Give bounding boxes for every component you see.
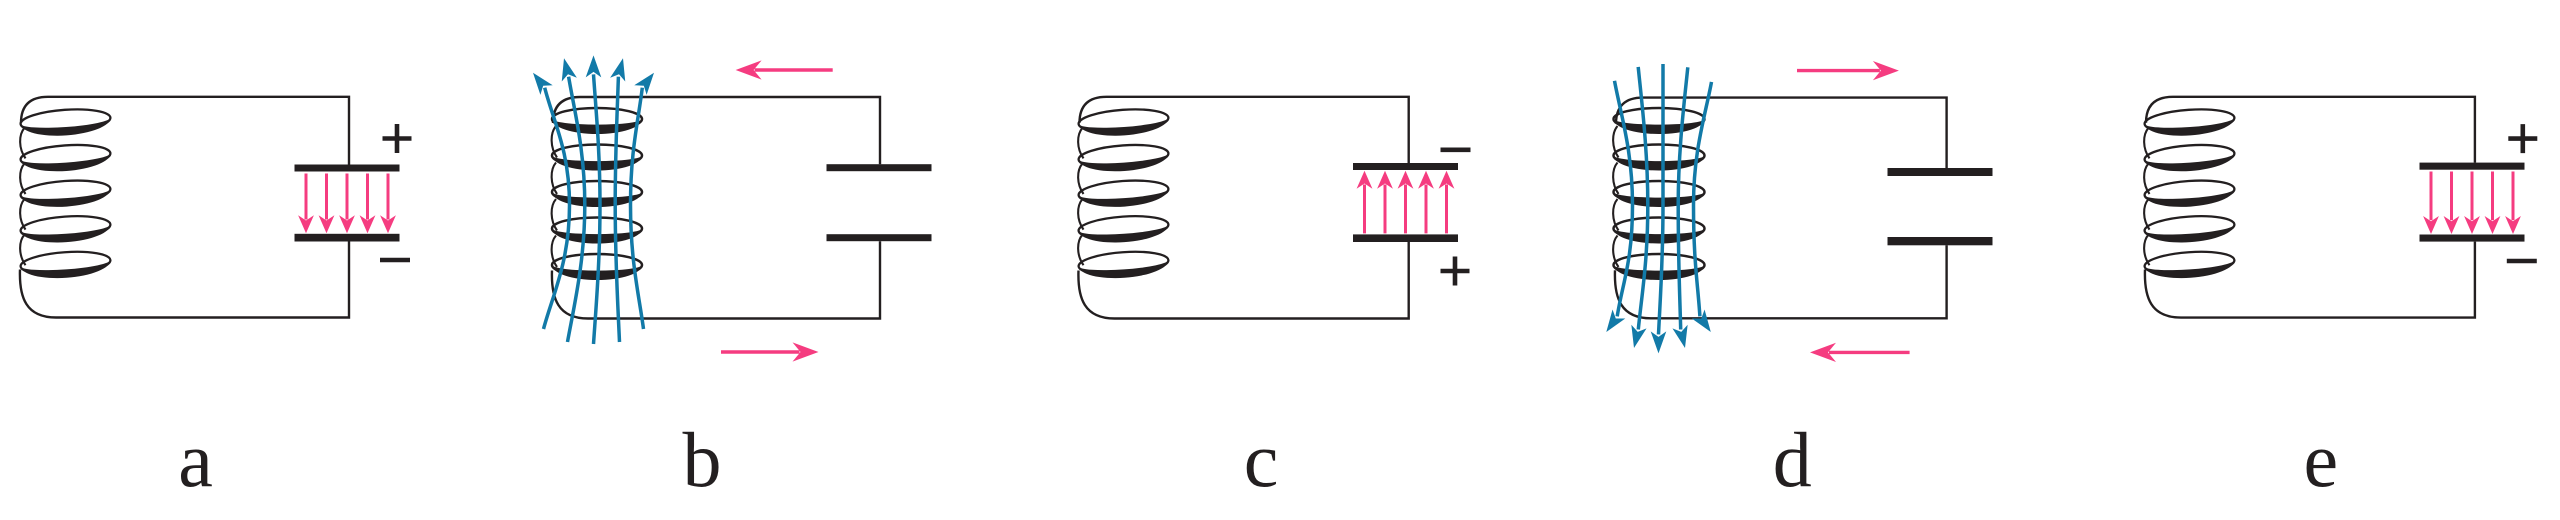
magnetic flux lines B through coil (panel b) [527,55,660,344]
inductor coil L, 5 turns (panel e) [2144,107,2236,281]
plus sign top plate (panel e) [2508,124,2537,153]
inductor coil L, 5 turns (panel b) [552,108,642,280]
svg-text:a: a [178,416,213,503]
svg-text:c: c [1244,416,1279,503]
inductor coil L, 5 turns (panel a) [20,107,112,281]
wire: top run and right drop to capacitor (panel a) [21,97,349,165]
current arrow top, pointing left (panel b) [755,68,833,71]
inductor coil L, 5 turns (panel c) [1078,107,1170,281]
minus sign bottom plate (panel a) [380,258,410,263]
capacitor C top plate (panel e) [2420,163,2525,170]
inductor coil L, 5 turns (panel d) [1613,108,1704,280]
capacitor C bottom plate (panel c) [1353,234,1458,242]
current arrow top, pointing right (panel d) [1797,69,1880,72]
capacitor C top plate (panel c) [1353,163,1458,170]
magnetic flux lines B through coil (panel d) [1600,64,1717,353]
E-field arrows between plates (panel e) [2423,172,2521,235]
capacitor C top plate (panel b) [827,164,932,171]
capacitor C bottom plate (panel e) [2420,235,2525,242]
svg-text:d: d [1773,416,1812,503]
plus sign top plate (panel a) [383,124,412,153]
capacitor C bottom plate (panel a) [295,234,400,242]
current arrow bottom, pointing right (panel b) [721,350,800,353]
wire: bottom run back to coil (panel d) [1615,245,1947,318]
minus sign top plate (panel c) [1441,148,1471,153]
capacitor C top plate (panel a) [295,165,400,172]
wire: top run and right drop to capacitor (panel b) [553,97,880,164]
capacitor C bottom plate (panel b) [827,234,932,241]
wire: top run and right drop to capacitor (panel c) [1080,97,1409,163]
plus sign bottom plate (panel c) [1441,257,1470,286]
wire: bottom run back to coil (panel a) [20,242,349,318]
current arrow bottom, pointing left (panel d) [1829,351,1910,354]
svg-text:e: e [2303,416,2338,503]
svg-text:b: b [683,416,722,503]
wire: bottom run back to coil (panel b) [552,241,880,318]
wire: top run and right drop to capacitor (panel e) [2146,97,2475,163]
wire: bottom run back to coil (panel c) [1078,242,1408,319]
E-field arrows between plates (panel c) [1357,171,1455,234]
wire: bottom run back to coil (panel e) [2145,242,2475,318]
wire: top run and right drop to capacitor (panel d) [1616,98,1947,168]
capacitor C bottom plate (panel d) [1888,237,1993,245]
minus sign bottom plate (panel e) [2507,259,2537,264]
capacitor C top plate (panel d) [1888,168,1993,176]
E-field arrows between plates (panel a) [298,174,396,234]
